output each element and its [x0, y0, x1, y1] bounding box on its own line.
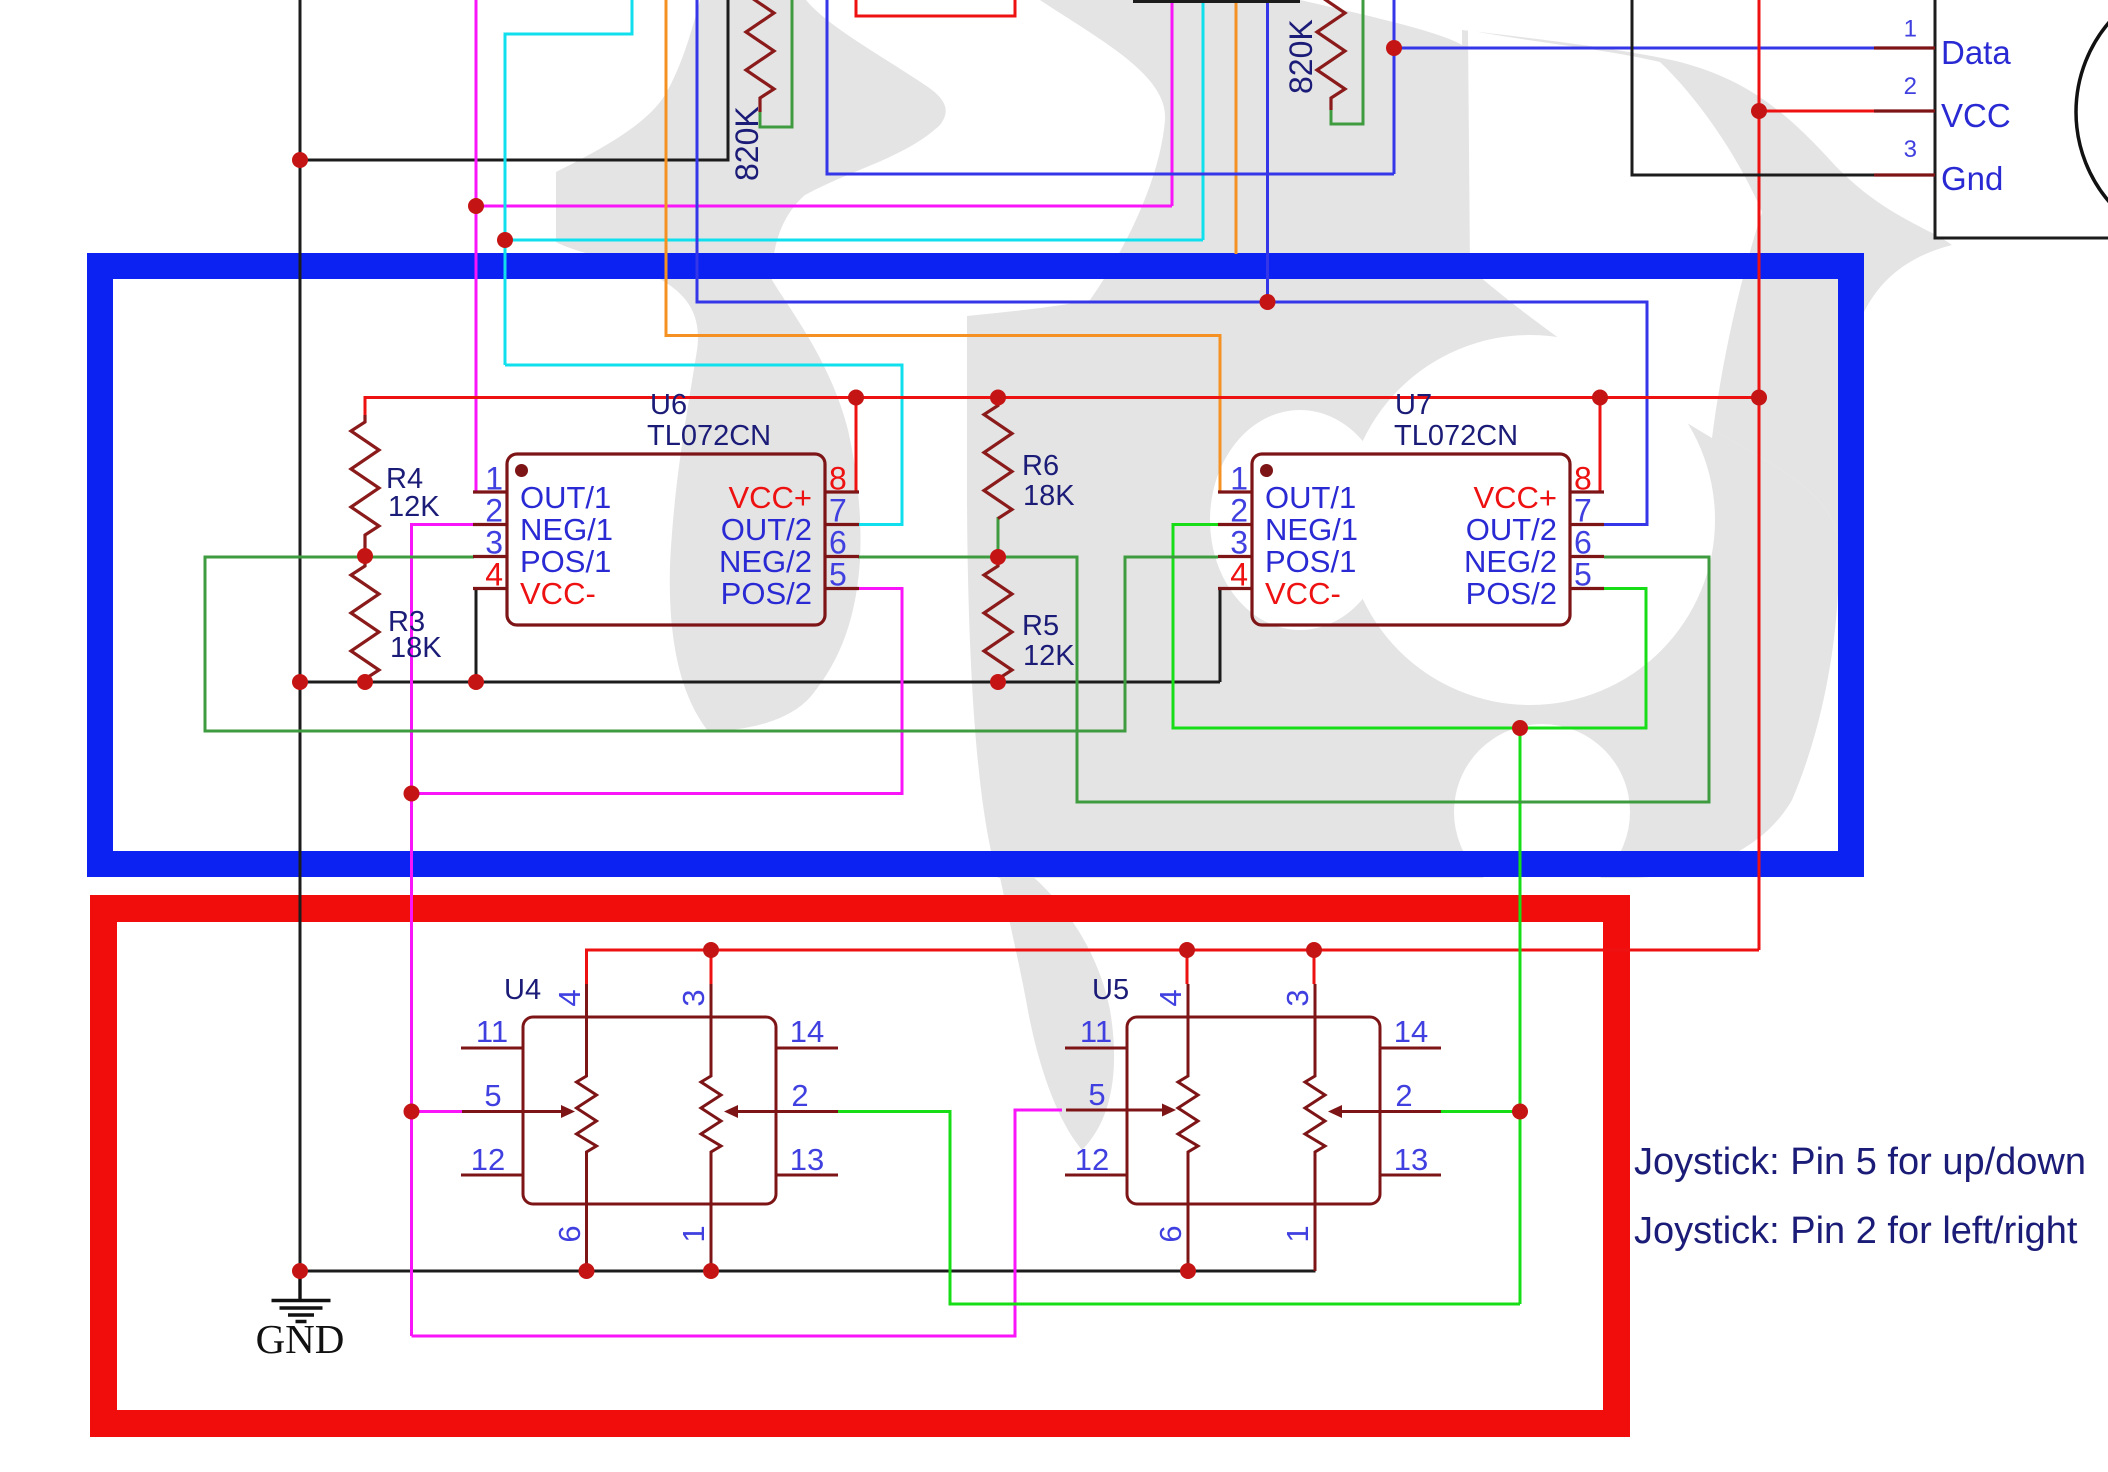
node blue branch [1260, 294, 1276, 310]
white wedge cut [1468, 30, 1762, 438]
wire green 820K second return [1331, 0, 1363, 124]
svg-text:18K: 18K [390, 632, 442, 664]
svg-text:TL072CN: TL072CN [1394, 420, 1518, 452]
svg-text:OUT/1: OUT/1 [520, 480, 611, 515]
svg-text:OUT/2: OUT/2 [721, 512, 812, 547]
joystick U5 pot1 wiper arrow [1127, 1109, 1164, 1112]
svg-text:3: 3 [1904, 136, 1917, 163]
svg-text:14: 14 [790, 1014, 824, 1049]
node R3 bottom rail [357, 674, 373, 690]
wire red right vertical [1758, 0, 1761, 950]
node black main/top elbow [292, 152, 308, 168]
gear tail droplet [996, 852, 1114, 1150]
wire black VCC- rail [300, 681, 1220, 684]
svg-text:5: 5 [829, 557, 847, 593]
red annotation box [104, 909, 1617, 1424]
svg-text:4: 4 [552, 989, 587, 1006]
svg-text:1: 1 [1230, 461, 1248, 497]
wire blue branch vertical [1266, 0, 1269, 302]
svg-text:2: 2 [1395, 1078, 1412, 1113]
wire darkgreen U6 pin6 net [858, 557, 1709, 802]
wire red VCC stub [1759, 110, 1874, 113]
svg-text:U5: U5 [1092, 974, 1129, 1006]
joystick U5 potentiometer 2 [1305, 1017, 1325, 1204]
svg-text:R5: R5 [1022, 610, 1059, 642]
svg-text:POS/1: POS/1 [1265, 544, 1356, 579]
svg-text:U7: U7 [1395, 389, 1432, 421]
wire green U5 pin2 stub [1440, 1110, 1520, 1113]
connector box left [1632, 0, 1935, 175]
U7 pin numbers [1230, 461, 1248, 593]
svg-text:11: 11 [476, 1014, 508, 1049]
cropped component bottom bar [1133, 0, 1300, 3]
node U6 pin4 rail [468, 674, 484, 690]
svg-text:GND: GND [256, 1316, 345, 1362]
wire black main vertical [299, 0, 302, 1271]
joystick U4 body [523, 1017, 776, 1204]
wire cyan U6 pin7 loop [505, 365, 902, 525]
connector circle symbol [2076, 0, 2108, 250]
svg-text:POS/2: POS/2 [1466, 576, 1557, 611]
svg-text:Gnd: Gnd [1941, 160, 2003, 197]
wire magenta net1 branch [476, 0, 1172, 206]
wire cyan top jog [505, 0, 632, 365]
node R6 bottom green [990, 549, 1006, 565]
U4 pin numbers [471, 989, 824, 1242]
wire blue data elbow [827, 0, 1394, 174]
svg-text:OUT/2: OUT/2 [1466, 512, 1557, 547]
svg-text:8: 8 [1574, 461, 1592, 497]
wire red U7 pin8 drop [1599, 398, 1602, 492]
svg-text:5: 5 [1574, 557, 1592, 593]
node red VCC stub [1751, 103, 1767, 119]
svg-text:12: 12 [1075, 1142, 1109, 1177]
wire black U7 pin4 drop [1219, 589, 1222, 682]
svg-text:OUT/1: OUT/1 [1265, 480, 1356, 515]
connector pin numbers [1904, 16, 1917, 164]
svg-text:TL072CN: TL072CN [647, 420, 771, 452]
svg-text:7: 7 [1574, 493, 1592, 529]
joystick U5 pot2 wiper arrow [1340, 1110, 1380, 1113]
connector box right [1935, 0, 2108, 238]
joystick U4 pot2 wiper arrow [736, 1110, 776, 1113]
svg-text:13: 13 [790, 1142, 824, 1177]
resistor 820K second [1317, 0, 1345, 110]
svg-text:4: 4 [1230, 557, 1248, 593]
joystick U4 pin stubs [461, 984, 838, 1271]
wire black top elbow [300, 0, 728, 160]
svg-text:Joystick: Pin 2 for left/right: Joystick: Pin 2 for left/right [1634, 1210, 2078, 1252]
svg-text:U4: U4 [504, 974, 541, 1006]
svg-text:14: 14 [1394, 1014, 1428, 1049]
op-amp U6 body [507, 454, 825, 625]
svg-text:VCC-: VCC- [1265, 576, 1341, 611]
wire darkgreen R6 bottom stub [997, 517, 1000, 557]
node magenta net1 branch [468, 198, 484, 214]
gear body mass [967, 0, 1839, 878]
node U6 pin8 rail [848, 390, 864, 406]
resistor 820K first [746, 0, 774, 112]
node green U5 pin2 [1512, 1104, 1528, 1120]
svg-text:12K: 12K [1023, 640, 1075, 672]
svg-text:5: 5 [1088, 1077, 1105, 1112]
svg-text:2: 2 [485, 493, 503, 529]
node black main/VCC- rail [292, 674, 308, 690]
svg-text:VCC-: VCC- [520, 576, 596, 611]
svg-text:3: 3 [1230, 525, 1248, 561]
node R4/R3/green [357, 548, 373, 564]
node magenta U4 pin5 [404, 1104, 420, 1120]
node U4 pin6 ground [579, 1263, 595, 1279]
wire magenta net1 vertical to U6 pin1 [475, 0, 478, 492]
svg-text:Data: Data [1941, 34, 2011, 71]
resistor R3 18K [351, 557, 379, 682]
node magenta pin5 branch [404, 786, 420, 802]
wire green 820K first return [760, 0, 792, 127]
wire red joystick rail [587, 950, 1760, 984]
svg-text:3: 3 [485, 525, 503, 561]
wire red top loop [856, 0, 1015, 16]
watermark [556, 0, 1952, 1150]
wire black ground rail [300, 1270, 1316, 1273]
svg-text:POS/2: POS/2 [721, 576, 812, 611]
connector pin stubs [1874, 48, 1935, 175]
U6 pin names [520, 480, 812, 611]
U5 pin numbers [1075, 989, 1428, 1242]
svg-text:NEG/2: NEG/2 [719, 544, 812, 579]
svg-text:NEG/2: NEG/2 [1464, 544, 1557, 579]
annotation boxes [100, 266, 1851, 1424]
svg-text:6: 6 [829, 525, 847, 561]
svg-text:2: 2 [791, 1078, 808, 1113]
node U4 pin3 rail [703, 942, 719, 958]
svg-text:11: 11 [1080, 1014, 1112, 1049]
wire black U6 pin4 drop [475, 590, 478, 682]
svg-text:18K: 18K [1023, 480, 1075, 512]
white gear hole [1345, 335, 1715, 705]
joystick U4 potentiometer 1 [577, 1017, 597, 1204]
svg-text:POS/1: POS/1 [520, 544, 611, 579]
node R5 bottom rail [990, 674, 1006, 690]
svg-text:4: 4 [1153, 989, 1188, 1006]
op-amp U7 body [1252, 454, 1570, 625]
ground symbol [272, 1271, 331, 1322]
joystick U4 pot1 wiper arrow [523, 1110, 563, 1113]
U6 pin numbers [485, 461, 503, 593]
joystick U4 potentiometer 2 [701, 1017, 721, 1204]
svg-text:2: 2 [1904, 73, 1917, 100]
svg-text:1: 1 [1904, 16, 1917, 43]
blue annotation box [100, 266, 1851, 864]
svg-text:6: 6 [1153, 1225, 1188, 1242]
wire red U6 pin8 drop [855, 398, 858, 492]
wrench blade [556, 0, 946, 731]
op-amp U6 pin stubs [473, 492, 859, 589]
svg-text:3: 3 [1280, 989, 1315, 1006]
node R6 top rail [990, 390, 1006, 406]
wire magenta net2 U4 pin5 stub [412, 1110, 463, 1113]
svg-text:VCC+: VCC+ [1473, 480, 1557, 515]
svg-text:1: 1 [1280, 1225, 1315, 1242]
node black main/ground rail [292, 1263, 308, 1279]
wire orange U7 pin1 [666, 0, 1220, 492]
node red rail right [1751, 390, 1767, 406]
svg-text:5: 5 [484, 1078, 501, 1113]
resistor R5 12K [984, 557, 1012, 682]
wire magenta net2 U5 pin5 loop [412, 1110, 1063, 1336]
node U7 pin8 rail [1592, 390, 1608, 406]
node cyan branch [497, 232, 513, 248]
wire green U7 pin2 loop [1173, 525, 1646, 729]
gear top-right arc [1462, 30, 1952, 548]
wire red VCC+ rail [365, 398, 1759, 419]
svg-text:3: 3 [676, 989, 711, 1006]
resistor R6 18K [984, 398, 1012, 519]
svg-text:1: 1 [485, 461, 503, 497]
svg-text:6: 6 [552, 1225, 587, 1242]
svg-text:12K: 12K [388, 491, 440, 523]
wire green vertical to U5 [1519, 728, 1522, 1304]
svg-text:820K: 820K [1283, 19, 1319, 94]
wire magenta net2 U6 pin5 loop [412, 589, 903, 794]
node U5 pin6 ground [1180, 1263, 1196, 1279]
svg-text:Joystick: Pin 5 for up/down: Joystick: Pin 5 for up/down [1634, 1141, 2086, 1183]
wire green U4 pin2 loop [838, 1112, 1520, 1305]
node U5 pin3 rail [1306, 942, 1322, 958]
op-amp U7 pin stubs [1218, 492, 1604, 589]
wire blue U7 pin7 net [697, 0, 1647, 525]
svg-text:820K: 820K [729, 106, 765, 181]
node U4 pin1 ground [703, 1263, 719, 1279]
svg-text:NEG/1: NEG/1 [1265, 512, 1358, 547]
svg-text:2: 2 [1230, 493, 1248, 529]
svg-text:1: 1 [676, 1225, 711, 1242]
node green U7 loop branch [1512, 720, 1528, 736]
U7 pin names [1265, 480, 1557, 611]
svg-text:12: 12 [471, 1142, 505, 1177]
svg-text:NEG/1: NEG/1 [520, 512, 613, 547]
joystick U5 pin stubs [1065, 984, 1441, 1271]
connector pin names [1941, 34, 2011, 197]
wire red joystick rail drops [711, 950, 1314, 984]
wire orange stub top [1235, 0, 1238, 254]
wire cyan branch right [505, 0, 1203, 240]
joystick U5 potentiometer 1 [1178, 1017, 1198, 1204]
svg-text:U6: U6 [650, 389, 687, 421]
white bottom notch [1454, 724, 1630, 900]
svg-text:R6: R6 [1022, 450, 1059, 482]
svg-text:VCC+: VCC+ [728, 480, 812, 515]
wire magenta net2 U6 pin2 down [412, 525, 475, 1337]
wire blue data horizontal [1394, 47, 1874, 50]
svg-text:8: 8 [829, 461, 847, 497]
svg-text:7: 7 [829, 493, 847, 529]
svg-text:13: 13 [1394, 1142, 1428, 1177]
node blue data [1386, 40, 1402, 56]
node U5 pin4 rail [1179, 942, 1195, 958]
resistor R4 12K [351, 415, 379, 555]
wire darkgreen U6 pin3 to U7 pin3 [205, 557, 1218, 731]
svg-text:4: 4 [485, 557, 503, 593]
svg-text:6: 6 [1574, 525, 1592, 561]
joystick U5 body [1127, 1017, 1380, 1204]
svg-text:VCC: VCC [1941, 97, 2011, 134]
